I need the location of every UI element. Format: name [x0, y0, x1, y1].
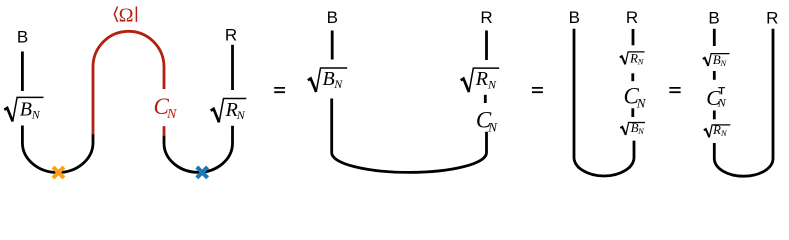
svg-text:R: R — [629, 50, 638, 65]
svg-text:N: N — [487, 120, 498, 135]
svg-text:R: R — [480, 8, 492, 27]
svg-text:N: N — [636, 96, 647, 111]
svg-text:B: B — [708, 8, 719, 27]
svg-text:R: R — [475, 68, 488, 90]
svg-text:B: B — [327, 8, 338, 27]
svg-text:Ω: Ω — [119, 4, 134, 26]
svg-text:N: N — [487, 77, 497, 91]
svg-text:R: R — [712, 122, 721, 137]
svg-text:R: R — [766, 8, 778, 27]
svg-text:B: B — [17, 28, 28, 47]
svg-text:N: N — [333, 77, 343, 91]
svg-text:R: R — [626, 8, 638, 27]
svg-text:N: N — [236, 108, 246, 122]
svg-text:N: N — [31, 108, 41, 122]
svg-text:R: R — [225, 26, 237, 45]
svg-text:B: B — [20, 98, 32, 120]
svg-text:N: N — [717, 95, 727, 109]
svg-text:N: N — [166, 107, 177, 122]
svg-text:B: B — [323, 68, 335, 90]
svg-text:B: B — [569, 8, 580, 27]
